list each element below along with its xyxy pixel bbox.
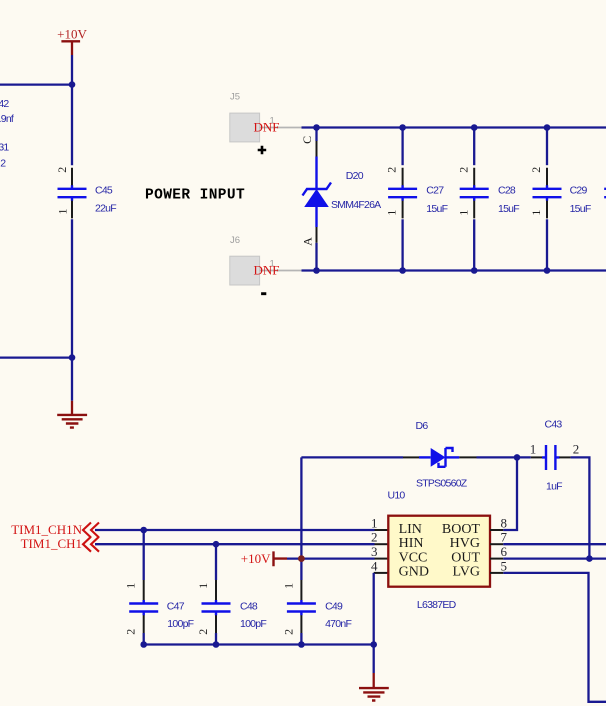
wire D6 cathode to junction — [477, 456, 531, 458]
svg-text:5: 5 — [501, 558, 508, 573]
node VCC junction — [298, 555, 305, 562]
svg-text:2: 2 — [529, 167, 543, 173]
pin stub BOOT — [490, 529, 503, 531]
svg-text:STPS0560Z: STPS0560Z — [416, 477, 468, 489]
svg-text:U10: U10 — [388, 490, 406, 502]
ground top-left — [57, 401, 87, 428]
capacitor C49 — [281, 559, 351, 645]
wire top rail — [302, 126, 606, 128]
svg-text:1: 1 — [385, 210, 399, 216]
svg-text:C31: C31 — [0, 141, 9, 153]
node junction at +10V branch — [69, 81, 76, 88]
capacitor C27 — [385, 128, 448, 271]
node rail C48 — [213, 641, 220, 648]
svg-text:3: 3 — [371, 544, 378, 559]
wire cap bottom rail — [144, 643, 374, 645]
wire C45 branch upper — [71, 85, 73, 166]
capacitor C30 partial right edge — [604, 189, 606, 197]
svg-text:1uF: 1uF — [546, 481, 562, 493]
svg-text:D6: D6 — [416, 420, 429, 432]
svg-text:2: 2 — [0, 157, 6, 169]
svg-text:GND: GND — [399, 565, 429, 580]
svg-text:+10V: +10V — [241, 551, 271, 566]
wire C43 to OUT — [571, 457, 590, 558]
svg-text:DNF: DNF — [254, 263, 280, 278]
node top rail at C28 — [471, 124, 478, 131]
pin stub GND — [374, 572, 389, 574]
wire to ground — [71, 358, 73, 401]
node top rail at D20 — [313, 124, 320, 131]
svg-text:2: 2 — [573, 442, 580, 457]
svg-text:1: 1 — [281, 583, 295, 589]
svg-text:L6387ED: L6387ED — [417, 599, 457, 611]
node OUT/C43 — [586, 555, 593, 562]
svg-text:J6: J6 — [230, 235, 240, 246]
node HIN/C48 — [213, 541, 220, 548]
svg-text:2: 2 — [55, 167, 69, 173]
svg-text:J5: J5 — [230, 91, 240, 102]
power flag +10V bottom — [241, 551, 287, 566]
wire GND pin down — [373, 573, 375, 673]
svg-text:2: 2 — [371, 530, 378, 545]
diode D6 schottky — [301, 420, 476, 489]
svg-text:15uF: 15uF — [498, 203, 519, 215]
svg-text:A: A — [300, 237, 314, 246]
svg-text:2: 2 — [124, 629, 138, 635]
svg-text:BOOT: BOOT — [442, 522, 481, 537]
diode D20 TVS — [300, 128, 381, 271]
capacitor C29 — [529, 128, 591, 271]
wire horizontal to left edge (top) — [0, 83, 72, 85]
svg-text:TIM1_CH1: TIM1_CH1 — [21, 536, 82, 551]
svg-text:100pF: 100pF — [167, 618, 193, 630]
node rail C49 — [298, 641, 305, 648]
svg-text:TIM1_CH1N: TIM1_CH1N — [11, 522, 82, 537]
capacitor C47 — [124, 530, 194, 645]
node bottom rail at D20 — [313, 267, 320, 274]
svg-text:2: 2 — [281, 629, 295, 635]
svg-text:C28: C28 — [498, 185, 516, 197]
net label TIM1_CH1 — [21, 536, 99, 552]
node LIN/C47 — [140, 527, 147, 534]
node bottom rail at C28 — [471, 267, 478, 274]
svg-text:2: 2 — [385, 167, 399, 173]
net label TIM1_CH1N — [11, 522, 99, 538]
wire C45 lower — [71, 219, 73, 357]
svg-text:15uF: 15uF — [426, 203, 447, 215]
svg-text:1: 1 — [55, 209, 69, 215]
pin stub LVG — [490, 572, 503, 574]
node bottom rail at C29 — [544, 267, 551, 274]
op-amp U10 body — [388, 490, 491, 611]
svg-text:1: 1 — [530, 442, 537, 457]
ground bottom — [359, 673, 389, 701]
svg-text:DNF: DNF — [254, 120, 280, 135]
wire bottom rail — [302, 269, 606, 271]
svg-text:C43: C43 — [545, 419, 563, 431]
svg-text:1: 1 — [529, 210, 543, 216]
svg-text:POWER INPUT: POWER INPUT — [145, 188, 245, 204]
svg-text:1: 1 — [456, 210, 470, 216]
svg-text:+10V: +10V — [57, 27, 87, 42]
svg-text:VCC: VCC — [399, 550, 428, 565]
svg-text:C45: C45 — [95, 185, 113, 197]
svg-text:LIN: LIN — [399, 522, 422, 537]
capacitor C45 — [55, 167, 116, 219]
node cap rail / gnd — [370, 641, 377, 648]
svg-text:2: 2 — [196, 629, 210, 635]
svg-text:22uF: 22uF — [95, 203, 116, 215]
svg-text:2: 2 — [456, 167, 470, 173]
svg-text:C47: C47 — [167, 601, 185, 613]
svg-text:7: 7 — [501, 530, 508, 545]
svg-text:LVG: LVG — [453, 565, 481, 580]
wire D6 anode branch vertical — [300, 457, 302, 558]
wire HVG to edge — [503, 543, 606, 545]
node bottom rail at C27 — [399, 267, 406, 274]
wire VCC row — [287, 557, 375, 559]
svg-text:8: 8 — [501, 516, 508, 531]
wire BOOT — [503, 457, 517, 530]
svg-text:C42: C42 — [0, 98, 9, 110]
pin stub OUT — [490, 558, 503, 560]
wire OUT to edge — [503, 557, 606, 559]
capacitor C28 — [456, 128, 519, 271]
svg-text:C48: C48 — [240, 601, 258, 613]
wire LVG down and right — [503, 573, 606, 702]
svg-text:470nF: 470nF — [325, 618, 351, 630]
svg-text:C49: C49 — [325, 601, 343, 613]
wire horizontal to left edge (mid) — [0, 356, 72, 358]
node top rail at C29 — [544, 124, 551, 131]
svg-text:3.9nf: 3.9nf — [0, 113, 14, 125]
svg-text:4: 4 — [371, 558, 378, 573]
svg-text:1: 1 — [196, 583, 210, 589]
pin stub VCC — [375, 558, 389, 560]
svg-text:HVG: HVG — [450, 536, 480, 551]
node BOOT junction — [514, 454, 521, 461]
pin stub HVG — [490, 543, 503, 545]
svg-text:1: 1 — [371, 516, 378, 531]
svg-text:1: 1 — [124, 583, 138, 589]
svg-text:HIN: HIN — [399, 536, 424, 551]
pin stub HIN — [375, 543, 389, 545]
svg-text:C: C — [300, 136, 314, 144]
wire +10V vertical to junction — [71, 55, 73, 85]
svg-text:15uF: 15uF — [570, 203, 591, 215]
svg-text:D20: D20 — [346, 170, 364, 182]
svg-text:OUT: OUT — [451, 550, 480, 565]
node top rail at C27 — [399, 124, 406, 131]
connector J6 — [230, 235, 302, 294]
capacitor C43 — [530, 419, 580, 493]
capacitor C48 — [196, 544, 266, 644]
svg-text:C27: C27 — [426, 185, 444, 197]
pin stub LIN — [375, 529, 389, 531]
svg-text:6: 6 — [501, 544, 508, 559]
power flag +10V top-left — [57, 27, 87, 56]
svg-text:100pF: 100pF — [240, 618, 266, 630]
wire LIN row — [95, 529, 375, 531]
svg-text:C29: C29 — [570, 185, 588, 197]
node rail C47 — [140, 641, 147, 648]
svg-text:SMM4F26A: SMM4F26A — [331, 199, 381, 211]
wire HIN row — [95, 543, 375, 545]
node junction mid-left — [69, 354, 76, 361]
connector J5 — [230, 91, 302, 154]
